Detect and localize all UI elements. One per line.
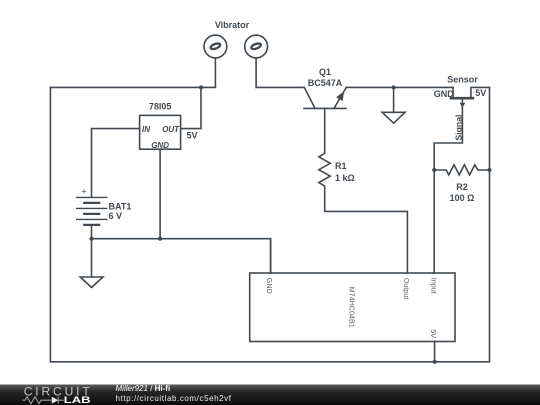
svg-text:R1: R1 bbox=[335, 161, 347, 171]
svg-text:BAT1: BAT1 bbox=[109, 201, 132, 211]
svg-text:R2: R2 bbox=[456, 182, 468, 192]
svg-text:http://circuitlab.com/c5eh2vf: http://circuitlab.com/c5eh2vf bbox=[116, 394, 232, 403]
svg-text:GND: GND bbox=[434, 89, 455, 99]
svg-text:GND: GND bbox=[265, 278, 274, 294]
svg-text:5V: 5V bbox=[429, 329, 438, 338]
svg-text:6 V: 6 V bbox=[109, 211, 123, 221]
svg-text:5V: 5V bbox=[187, 131, 198, 141]
svg-text:BC547A: BC547A bbox=[308, 78, 343, 88]
svg-text:Signal: Signal bbox=[453, 115, 463, 141]
svg-text:+: + bbox=[81, 187, 86, 197]
svg-text:Sensor: Sensor bbox=[447, 75, 478, 85]
svg-text:GND: GND bbox=[151, 141, 169, 150]
svg-text:IN: IN bbox=[142, 125, 150, 134]
svg-text:5V: 5V bbox=[475, 88, 486, 98]
svg-text:M74HC04B1: M74HC04B1 bbox=[347, 287, 356, 328]
svg-text:Vibrator: Vibrator bbox=[215, 20, 250, 30]
svg-text:Output: Output bbox=[402, 278, 411, 300]
svg-text:78I05: 78I05 bbox=[149, 102, 172, 112]
svg-text:LAB: LAB bbox=[64, 395, 92, 405]
svg-text:Input: Input bbox=[430, 278, 439, 294]
svg-text:Miller921 / Hi-fi: Miller921 / Hi-fi bbox=[116, 384, 171, 393]
svg-text:Q1: Q1 bbox=[319, 67, 331, 77]
svg-text:100 Ω: 100 Ω bbox=[450, 193, 475, 203]
svg-text:OUT: OUT bbox=[162, 125, 180, 134]
svg-text:1 kΩ: 1 kΩ bbox=[335, 173, 355, 183]
